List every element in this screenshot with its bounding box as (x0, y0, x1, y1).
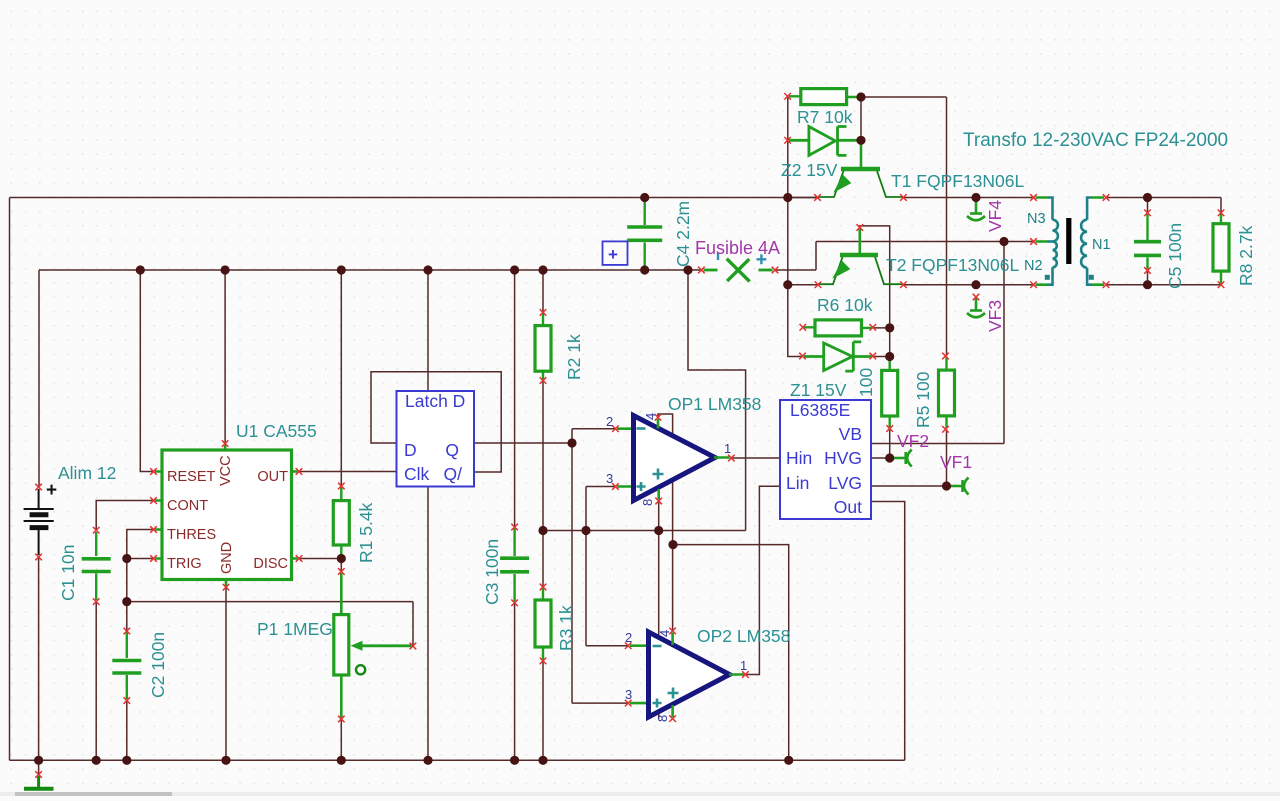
pin x (150, 526, 157, 533)
pin x (296, 555, 303, 562)
svg-text:R6 10k: R6 10k (817, 295, 873, 315)
connector VF3 (967, 298, 985, 318)
resistor R4 body (882, 370, 898, 416)
wire OP1 pin4 loop (658, 414, 673, 631)
pin x (338, 568, 345, 575)
svg-text:N2: N2 (1024, 258, 1043, 274)
junction (856, 92, 865, 101)
wire VCC to C3 top (514, 270, 516, 527)
svg-text:Z1 15V: Z1 15V (790, 380, 847, 400)
pin x (93, 527, 100, 534)
wire R3 bottom to ground rail (542, 661, 544, 760)
capacitor C5 (1146, 214, 1148, 240)
junction (567, 438, 576, 447)
junction (337, 554, 346, 563)
wire VCC to U1 RESET (140, 270, 153, 472)
svg-text:100: 100 (856, 368, 876, 397)
pin x (612, 483, 619, 490)
pin x (799, 353, 806, 360)
wire OP1 out to Hin (731, 457, 780, 459)
svg-text:N3: N3 (1027, 211, 1046, 227)
svg-text:OP2 LM358: OP2 LM358 (697, 626, 790, 646)
pin x (870, 324, 877, 331)
zener diode Z1 (804, 342, 872, 371)
svg-text:T1 FQPF13N06L: T1 FQPF13N06L (891, 171, 1025, 191)
wire R1 bottom node to P1 (340, 559, 342, 572)
op-amp OP1 LM358 (634, 416, 716, 501)
wire OP2 out to Lin (745, 486, 780, 674)
pin x (900, 194, 907, 201)
svg-text:C4 2.2m: C4 2.2m (673, 201, 693, 267)
pin x (1030, 281, 1037, 288)
svg-text:VCC: VCC (218, 455, 234, 486)
svg-text:VF4: VF4 (985, 200, 1005, 232)
transformer green stubs (1036, 198, 1105, 285)
pin x (1030, 194, 1037, 201)
wire U1 THRES corner (127, 530, 154, 559)
wire latch D loop (371, 372, 501, 472)
wire transformer N1 bottom to C5/R8 (1106, 284, 1221, 286)
svg-text:4: 4 (643, 413, 658, 420)
wire U1 GND down to rail (225, 587, 227, 760)
wire T2 base link (860, 226, 890, 371)
svg-text:TRIG: TRIG (167, 556, 202, 572)
pin x (942, 353, 949, 360)
wire Out pin to ground rail (871, 502, 905, 761)
OP2 vplus (668, 688, 679, 699)
op-amp OP2 LM358 (649, 632, 730, 717)
wire U1 TRIG to node (127, 558, 154, 560)
pin x (35, 554, 42, 561)
svg-text:8: 8 (655, 715, 670, 722)
junction (221, 756, 230, 765)
junction (640, 193, 649, 202)
wire Q node vertical (571, 429, 573, 703)
latch Latch D box (397, 391, 475, 487)
capacitor C3 (513, 528, 515, 556)
junction (856, 136, 865, 145)
svg-text:C1 10n: C1 10n (58, 545, 78, 601)
svg-text:VF2: VF2 (897, 431, 929, 451)
wire OP1 pin8 down (658, 501, 660, 719)
junction (337, 265, 346, 274)
resistor R1 body (333, 501, 349, 545)
svg-text:Clk: Clk (404, 464, 430, 484)
wire VCC to latch top (427, 270, 429, 391)
pin x (800, 324, 807, 331)
wire C4 loop down (688, 270, 746, 531)
wire T2 emitter to junction (788, 284, 818, 286)
wire mid node to OP2 pin2 vertical (585, 487, 587, 646)
wire T1 collector to transformer top (903, 197, 1033, 199)
scrollbar track (0, 792, 1280, 796)
ground symbol (24, 776, 54, 789)
pin x (150, 497, 157, 504)
connector VF4 (967, 201, 985, 221)
svg-text:2: 2 (606, 414, 613, 429)
fuse Fusible 4A (704, 259, 773, 282)
junction (885, 352, 894, 361)
wire latch bottom to ground rail (427, 487, 429, 761)
pin x (973, 294, 980, 301)
resistor R5 body (939, 370, 955, 416)
pin x (150, 468, 157, 475)
junction (640, 265, 649, 274)
svg-text:1: 1 (740, 658, 747, 673)
pin x (728, 455, 735, 462)
OP2 plus (653, 699, 662, 708)
pin x (655, 414, 662, 421)
pin x (540, 377, 547, 384)
wire R7/Z2 left vertical (788, 96, 803, 356)
pin x (124, 697, 131, 704)
svg-text:LVG: LVG (828, 473, 862, 493)
junction (668, 540, 677, 549)
pin x (150, 555, 157, 562)
svg-text:R5 100: R5 100 (913, 371, 933, 428)
pin x (338, 483, 345, 490)
junction (510, 265, 519, 274)
svg-text:Q/: Q/ (444, 464, 463, 484)
junction (538, 756, 547, 765)
svg-text:C3 100n: C3 100n (482, 539, 502, 605)
resistor R2 body (535, 326, 551, 372)
svg-text:L6385E: L6385E (790, 400, 850, 420)
pin x (698, 267, 705, 274)
wire R2 bottom to mid node (542, 381, 544, 531)
wire VCC to R1 top (340, 270, 342, 486)
svg-text:OP1 LM358: OP1 LM358 (668, 394, 761, 414)
capacitor C2 (126, 632, 128, 658)
junction (510, 756, 519, 765)
wire wiper line (127, 602, 413, 646)
wire to OP2 pin2 (586, 645, 628, 647)
wire fuse right to corner (775, 269, 816, 271)
wire VCC to U1 VCC pin (224, 270, 226, 444)
svg-text:8: 8 (640, 499, 655, 506)
connector VF2 (894, 450, 912, 467)
pin x (784, 93, 791, 100)
svg-text:C5 100n: C5 100n (1165, 223, 1185, 289)
wire VB vertical to mid tap (1003, 242, 1005, 444)
pin x (814, 194, 821, 201)
OP1 pin leads (617, 419, 730, 500)
junction (92, 756, 101, 765)
pin x (410, 643, 417, 650)
svg-text:VF1: VF1 (940, 452, 972, 472)
wire C3 bottom to ground rail (514, 603, 516, 761)
wire C1 bottom to ground rail (95, 602, 97, 761)
pin x (540, 658, 547, 665)
junction (122, 597, 131, 606)
capacitor C2 plates (112, 661, 141, 674)
pin x (35, 771, 42, 778)
pin x (886, 425, 893, 432)
junction (1143, 280, 1152, 289)
wire VCC rail (39, 269, 701, 271)
wire Q node to OP1 pin2 (572, 428, 615, 430)
pin x (655, 498, 662, 505)
wire OP1 pin3 stub (586, 486, 615, 488)
pin x (35, 484, 42, 491)
capacitor C4 (polarized) (644, 199, 646, 225)
svg-text:3: 3 (606, 471, 613, 486)
wire T1 emitter lead (788, 197, 818, 199)
pin x (1144, 267, 1151, 274)
svg-text:VF3: VF3 (985, 300, 1005, 332)
wire P1 bottom to rail (340, 719, 342, 760)
svg-text:GND: GND (219, 542, 235, 574)
wire left outer vertical (9, 198, 11, 761)
pin x (222, 440, 229, 447)
junction (942, 481, 951, 490)
junction (221, 265, 230, 274)
transformer Transfo 12-230VAC FP24-2000 (1047, 198, 1092, 285)
junction (581, 526, 590, 535)
wire R5 column vertical (946, 97, 948, 356)
wire U1 CONT to C1 (96, 501, 153, 531)
pin x (1103, 281, 1110, 288)
svg-text:Out: Out (834, 497, 862, 517)
pin x (669, 715, 676, 722)
svg-text:Hin: Hin (786, 448, 812, 468)
pin x (1144, 210, 1151, 217)
wire C5 top stub (1147, 198, 1149, 213)
junction (136, 265, 145, 274)
svg-text:Z2 15V: Z2 15V (781, 160, 838, 180)
junction (423, 756, 432, 765)
capacitor C3 plates (500, 558, 529, 572)
junction (971, 193, 980, 202)
wire transformer N1 top to C5/R8 (1106, 197, 1221, 199)
battery Alim 12 (24, 489, 54, 555)
wire LVG to R5/VF1 (871, 429, 947, 486)
wire R8 top lead drop (1220, 198, 1222, 213)
svg-text:R1 5.4k: R1 5.4k (356, 502, 376, 563)
capacitor C5 plates (1134, 242, 1161, 256)
wire battery bottom to rail (38, 557, 40, 760)
wire top rail left (battery- / T1 emitter) (10, 197, 818, 199)
svg-text:D: D (404, 440, 417, 460)
pin x (93, 598, 100, 605)
wire T2 base rail to transformer mid tap (816, 241, 1034, 243)
pin x (942, 426, 949, 433)
transistor T2 FQPF13N06L (818, 229, 903, 284)
transistor T1 FQPF13N06L (818, 142, 903, 197)
wire latch Q to node (474, 442, 572, 444)
svg-text:Alim 12: Alim 12 (58, 463, 116, 483)
junction (971, 280, 980, 289)
pin x (1218, 281, 1225, 288)
svg-text:Latch D: Latch D (405, 391, 465, 411)
pin x (1103, 194, 1110, 201)
pin x (815, 281, 822, 288)
wire C5 bottom stub (1147, 271, 1149, 285)
svg-text:Lin: Lin (786, 473, 809, 493)
wire ground stub (38, 760, 40, 774)
wire R7 right to R5 column (861, 96, 947, 98)
svg-text:C2 100n: C2 100n (148, 632, 168, 698)
IC U1 CA555 box (162, 450, 292, 580)
connector VF1 (951, 478, 969, 495)
C4 plus box marker (603, 241, 628, 265)
junction (122, 756, 131, 765)
svg-text:HVG: HVG (824, 448, 862, 468)
fuse plus mark (757, 254, 767, 264)
svg-text:T2 FQPF13N06L: T2 FQPF13N06L (886, 255, 1020, 275)
wire R6 right link (873, 327, 890, 329)
junction (337, 756, 346, 765)
capacitor C1 plates (82, 559, 111, 572)
pin x (742, 671, 749, 678)
junction (1143, 193, 1152, 202)
wire fuse corner up (815, 242, 817, 271)
pin x (900, 281, 907, 288)
junction (423, 265, 432, 274)
svg-text:U1 CA555: U1 CA555 (236, 421, 317, 441)
svg-text:Q: Q (445, 440, 459, 460)
junction (538, 526, 547, 535)
pin x (625, 700, 632, 707)
resistor R7 body (801, 89, 847, 105)
wire TRIG node down (126, 559, 128, 632)
wire mid rail horizontal (543, 530, 746, 532)
pin x (857, 224, 864, 231)
pin x (296, 468, 303, 475)
resistor R3 body (535, 600, 551, 647)
capacitor C4 plates (627, 227, 662, 240)
capacitor C1 (95, 532, 97, 556)
wire Z1 right link (873, 356, 890, 358)
pin x (540, 584, 547, 591)
pin x (223, 584, 230, 591)
svg-text:VB: VB (839, 424, 862, 444)
svg-text:1: 1 (724, 441, 731, 456)
wire T2 collector to transformer bottom (903, 284, 1033, 286)
transformer core (1066, 218, 1071, 264)
U1 VCC pin stub (224, 445, 227, 450)
zener diode Z2 (789, 127, 860, 156)
IC U2 L6385E box (780, 400, 871, 519)
svg-text:RESET: RESET (167, 469, 215, 485)
wire U1 DISC to R1 bottom (299, 558, 341, 560)
scrollbar thumb (15, 792, 172, 796)
wire VB horizontal (871, 443, 1004, 445)
OP1 vplus (653, 469, 664, 480)
junction (783, 280, 792, 289)
junction (654, 526, 663, 535)
pin x (625, 642, 632, 649)
OP1 minus (637, 427, 646, 430)
wire Q node to OP2 pin3 (572, 702, 628, 704)
OP2 minus (653, 645, 662, 648)
pin x (870, 353, 877, 360)
junction (683, 265, 692, 274)
wire VCC to R2 top (542, 270, 544, 312)
junction (885, 453, 894, 462)
fuse minus mark (717, 253, 719, 261)
junction (34, 756, 43, 765)
pin x (612, 425, 619, 432)
transformer polarity squares (1045, 275, 1050, 280)
potentiometer P1 1MEG (340, 573, 343, 614)
junction (784, 756, 793, 765)
svg-text:4: 4 (657, 630, 672, 637)
pin x (124, 628, 131, 635)
svg-text:R8 2.7k: R8 2.7k (1236, 225, 1256, 286)
junction (783, 193, 792, 202)
wire bottom ground rail (10, 759, 905, 761)
pin x (338, 716, 345, 723)
svg-text:R3 1k: R3 1k (556, 605, 576, 651)
P1 circle marker (356, 665, 365, 674)
pin x (772, 267, 779, 274)
svg-text:Fusible 4A: Fusible 4A (695, 238, 780, 258)
junction (122, 554, 131, 563)
wire C2 bottom to ground rail (126, 701, 128, 761)
OP2 pin leads (630, 633, 744, 718)
junction (538, 265, 547, 274)
svg-text:P1 1MEG: P1 1MEG (257, 619, 333, 639)
pin x (1218, 210, 1225, 217)
svg-text:R2 1k: R2 1k (564, 334, 584, 380)
svg-text:THRES: THRES (167, 527, 216, 543)
OP1 plus (637, 482, 646, 491)
wire R7 to Z2 right link (860, 97, 862, 140)
U1 pin leads (155, 472, 298, 559)
pin x (511, 524, 518, 531)
svg-text:DISC: DISC (253, 556, 288, 572)
wire U1 OUT to latch Clk (299, 471, 397, 473)
wire op supply to ground (673, 545, 789, 761)
svg-text:Transfo 12-230VAC FP24-2000: Transfo 12-230VAC FP24-2000 (963, 130, 1228, 151)
pin x (669, 628, 676, 635)
junction (999, 237, 1008, 246)
svg-text:CONT: CONT (167, 498, 208, 514)
svg-text:+: + (608, 245, 618, 264)
pin x (1030, 238, 1037, 245)
pin x (511, 600, 518, 607)
wire battery plus drop (38, 270, 40, 487)
U1 GND pin stub (225, 580, 228, 587)
wire HVG to R4 (871, 429, 890, 459)
svg-text:N1: N1 (1092, 237, 1111, 253)
svg-text:OUT: OUT (257, 469, 288, 485)
svg-text:2: 2 (625, 630, 632, 645)
wire mid node to R3 top (542, 531, 544, 588)
svg-text:R7 10k: R7 10k (797, 107, 853, 127)
svg-text:3: 3 (625, 687, 632, 702)
resistor R8 body (1213, 224, 1229, 271)
svg-text:+: + (46, 480, 57, 501)
junction (885, 323, 894, 332)
pin x (784, 137, 791, 144)
P1 wiper arrow (360, 644, 412, 647)
pin x (540, 309, 547, 316)
resistor R6 body (815, 320, 862, 336)
